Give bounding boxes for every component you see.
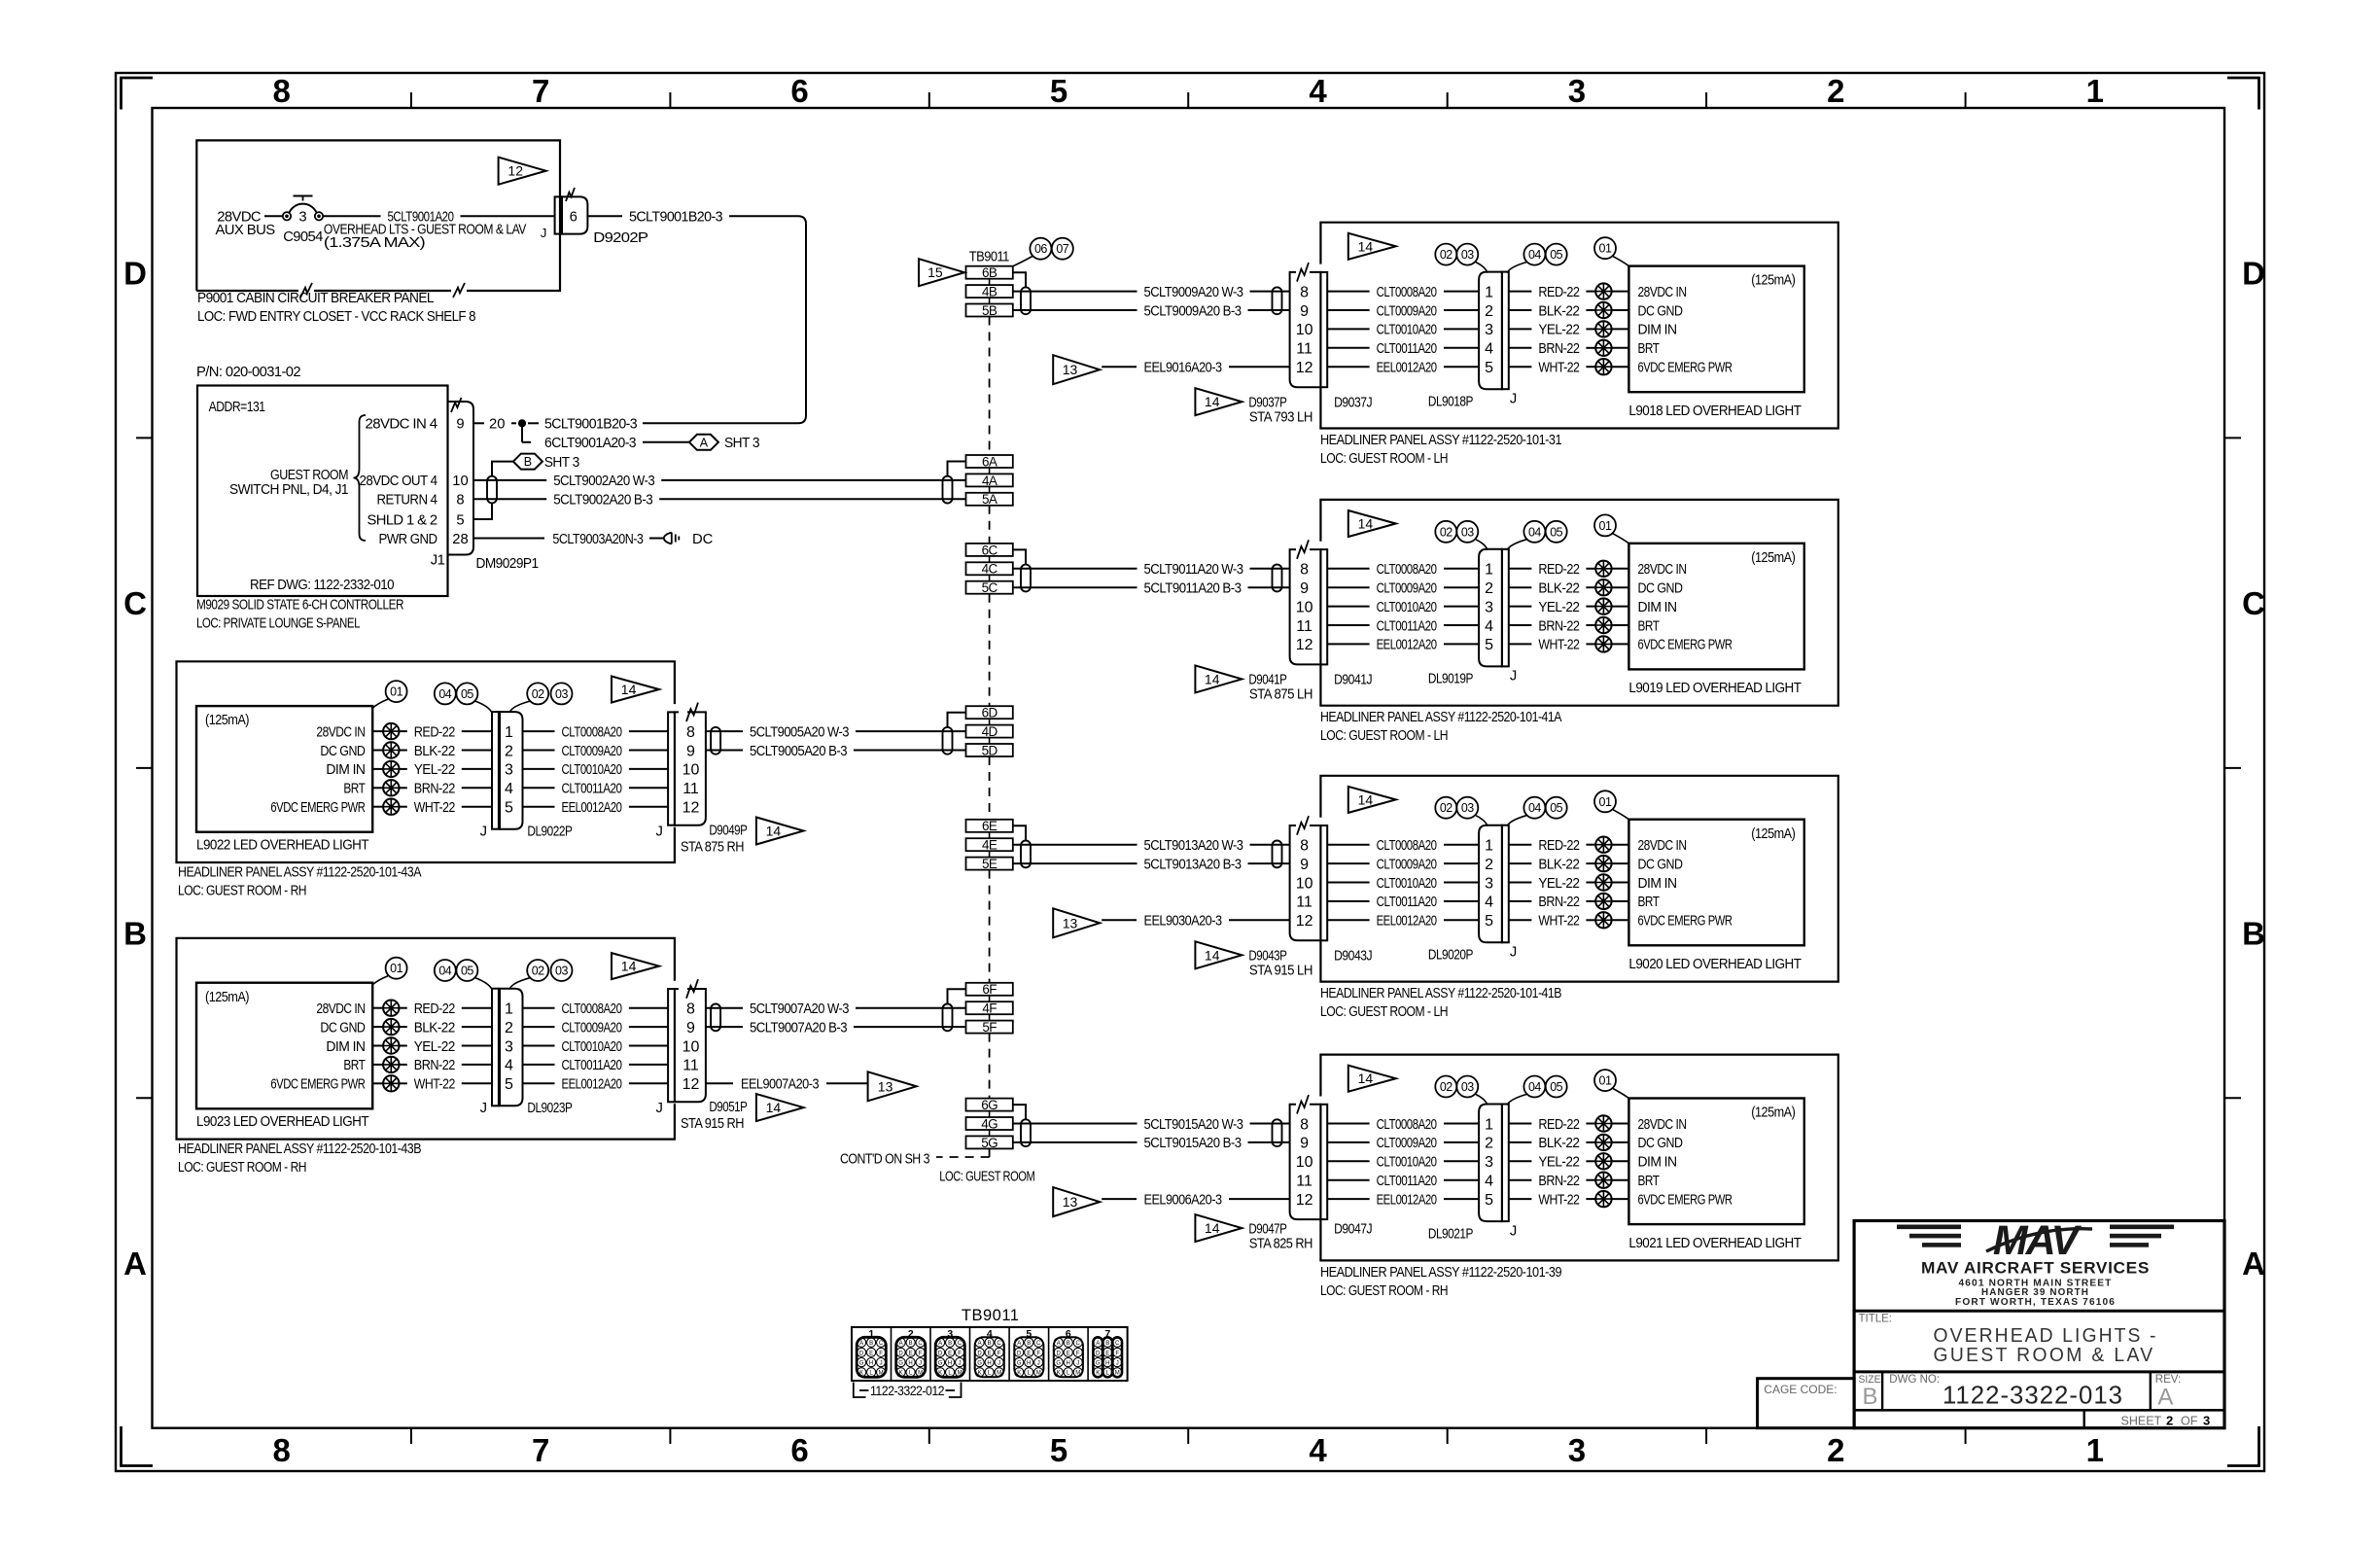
svg-text:K: K [859, 1371, 863, 1377]
svg-text:G: G [1096, 1361, 1101, 1367]
lamp YEL-22 [1595, 598, 1611, 614]
TB9011 ref dwg bracket 1122-3322-012 [854, 1383, 866, 1398]
connector D9047J plate [1320, 1105, 1327, 1219]
svg-text:1122-3322-012: 1122-3322-012 [870, 1384, 944, 1398]
connector DL9018P plate [1502, 272, 1509, 390]
svg-text:7: 7 [532, 73, 549, 109]
headliner panel assembly boundary 1122-2520-101-41A [1320, 500, 1837, 706]
terminal TB9011-5D [966, 744, 1013, 756]
svg-text:HEADLINER PANEL ASSY #1122-252: HEADLINER PANEL ASSY #1122-2520-101-41A [1320, 710, 1562, 725]
svg-text:5CLT9005A20 B-3: 5CLT9005A20 B-3 [750, 744, 847, 759]
svg-text:J: J [480, 824, 487, 839]
svg-text:C: C [997, 1341, 1001, 1347]
svg-text:A: A [1057, 1341, 1061, 1347]
svg-text:6D: 6D [982, 706, 998, 720]
svg-text:05: 05 [1550, 248, 1562, 262]
svg-text:5CLT9001B20-3: 5CLT9001B20-3 [629, 210, 722, 226]
svg-text:11: 11 [1296, 1174, 1312, 1190]
svg-text:A: A [938, 1341, 942, 1347]
svg-text:J: J [655, 1101, 662, 1116]
svg-text:4E: 4E [982, 838, 997, 853]
shield symbol at D9037 [1273, 287, 1282, 314]
svg-text:EEL0012A20: EEL0012A20 [1377, 638, 1437, 653]
svg-text:1: 1 [2086, 1432, 2104, 1468]
connector DL9019P body [1479, 549, 1502, 667]
cell divider [929, 1327, 931, 1381]
svg-text:BLK-22: BLK-22 [414, 744, 455, 759]
connector D9049 plate [668, 712, 675, 825]
svg-text:BRN-22: BRN-22 [414, 782, 455, 797]
svg-text:H: H [948, 1361, 952, 1367]
wire 5CLT9013A20 W-3 [1013, 844, 1137, 846]
svg-text:2: 2 [505, 1020, 513, 1036]
svg-text:FORT WORTH, TEXAS 76106: FORT WORTH, TEXAS 76106 [1955, 1297, 2116, 1308]
svg-text:D: D [1017, 1351, 1022, 1356]
svg-text:CLT0010A20: CLT0010A20 [562, 1039, 622, 1055]
svg-text:GUEST ROOM & LAV: GUEST ROOM & LAV [1934, 1344, 2155, 1366]
svg-text:5G: 5G [981, 1136, 997, 1150]
svg-text:CLT0010A20: CLT0010A20 [1377, 323, 1437, 338]
svg-text:9: 9 [686, 1020, 695, 1036]
flag 14 (inside 9022) [612, 677, 659, 703]
svg-text:BRN-22: BRN-22 [1538, 341, 1579, 357]
svg-text:CLT0009A20: CLT0009A20 [1377, 857, 1437, 872]
svg-text:J: J [1510, 1223, 1517, 1239]
svg-text:P/N: 020-0031-02: P/N: 020-0031-02 [196, 365, 300, 380]
svg-text:12: 12 [682, 800, 700, 817]
svg-text:03: 03 [555, 965, 568, 978]
svg-text:5CLT9009A20 W-3: 5CLT9009A20 W-3 [1144, 285, 1243, 300]
svg-text:D: D [898, 1351, 903, 1356]
svg-text:5: 5 [1485, 1192, 1493, 1209]
svg-text:D: D [977, 1351, 982, 1356]
svg-text:YEL-22: YEL-22 [1538, 323, 1579, 338]
svg-text:28VDC IN: 28VDC IN [316, 1001, 365, 1017]
svg-text:02: 02 [1440, 248, 1452, 262]
wire EEL9007A20-3 to flag 13 [706, 1082, 733, 1084]
break symbol D9047 [1297, 1095, 1309, 1114]
svg-text:3: 3 [505, 762, 513, 779]
svg-text:L9022 LED OVERHEAD LIGHT: L9022 LED OVERHEAD LIGHT [196, 837, 369, 853]
svg-text:8: 8 [686, 724, 695, 741]
headliner panel assembly boundary 1122-2520-101-43B [177, 938, 675, 1140]
P9001 cabin circuit breaker panel box [196, 140, 560, 291]
svg-text:2: 2 [1485, 857, 1493, 873]
svg-text:01: 01 [1599, 1074, 1612, 1088]
svg-text:D: D [2242, 256, 2265, 292]
wire 5CLT9013A20 B-3 [1013, 862, 1137, 864]
svg-text:B: B [909, 1341, 913, 1347]
svg-text:CLT0008A20: CLT0008A20 [1377, 562, 1437, 578]
flag 14 D9049P [756, 818, 804, 845]
svg-text:14: 14 [766, 824, 782, 839]
svg-text:AUX BUS: AUX BUS [216, 223, 276, 238]
svg-text:E: E [1067, 1351, 1070, 1356]
headliner panel assembly boundary 1122-2520-101-39 [1320, 1055, 1837, 1261]
svg-text:(125mA): (125mA) [1751, 1106, 1796, 1121]
lamp RED-22 [1595, 1115, 1611, 1131]
item circles 02 03 leaders [1435, 797, 1456, 819]
svg-text:5C: 5C [982, 580, 998, 595]
headliner panel assembly boundary 1122-2520-101-31 [1320, 223, 1837, 429]
svg-text:LOC: GUEST ROOM - LH: LOC: GUEST ROOM - LH [1320, 1004, 1448, 1020]
flag 14 D9041P [1195, 665, 1242, 692]
svg-text:5: 5 [505, 800, 513, 817]
svg-text:4C: 4C [982, 562, 998, 577]
item circle 01 leader [386, 958, 407, 979]
item circles 02 03 leaders [1435, 244, 1456, 265]
svg-text:L9018 LED OVERHEAD LIGHT: L9018 LED OVERHEAD LIGHT [1628, 404, 1802, 419]
svg-text:4: 4 [1485, 1174, 1493, 1190]
connector DL9020P plate [1502, 825, 1509, 943]
controller connector J1 [448, 402, 474, 555]
terminal TB9011-4A [966, 474, 1013, 486]
svg-text:K: K [1017, 1371, 1021, 1377]
svg-text:01: 01 [390, 962, 402, 975]
svg-text:SWITCH PNL, D4, J1: SWITCH PNL, D4, J1 [229, 482, 348, 498]
svg-text:H: H [908, 1361, 912, 1367]
svg-text:BRN-22: BRN-22 [414, 1058, 455, 1073]
DC ground symbol [664, 533, 672, 544]
svg-text:5: 5 [1485, 360, 1493, 376]
svg-text:4: 4 [1485, 895, 1493, 911]
svg-text:4D: 4D [982, 724, 998, 739]
svg-text:11: 11 [1296, 618, 1312, 635]
svg-text:14: 14 [1205, 671, 1220, 686]
svg-text:(125mA): (125mA) [1751, 550, 1796, 566]
svg-text:A: A [123, 1246, 147, 1282]
svg-text:3: 3 [1485, 875, 1493, 892]
svg-text:DC GND: DC GND [1638, 1136, 1683, 1151]
wires colored to lamps [1509, 844, 1532, 846]
svg-text:D: D [1096, 1351, 1101, 1356]
corner trim marks [122, 78, 154, 110]
svg-text:12: 12 [682, 1076, 700, 1093]
svg-text:01: 01 [1599, 242, 1612, 256]
svg-text:10: 10 [1296, 322, 1313, 338]
wire 5CLT9007A20 B-3 [706, 1026, 743, 1028]
svg-text:3: 3 [1568, 1432, 1586, 1468]
svg-text:28: 28 [452, 532, 468, 547]
svg-text:C: C [879, 1341, 884, 1347]
solid link segments group E [989, 832, 991, 838]
svg-text:BRT: BRT [1638, 895, 1660, 910]
svg-text:06: 06 [1034, 242, 1047, 256]
connector D9051P body [675, 989, 706, 1102]
svg-text:C: C [1076, 1341, 1081, 1347]
svg-text:5: 5 [1485, 637, 1493, 653]
lamp WHT-22 [1595, 359, 1611, 374]
svg-text:02: 02 [1440, 525, 1452, 539]
flag 14 (inside 9020) [1348, 787, 1396, 813]
svg-text:DIM IN: DIM IN [326, 1039, 365, 1055]
svg-text:D: D [938, 1351, 943, 1356]
svg-text:CLT0011A20: CLT0011A20 [562, 1058, 622, 1073]
svg-text:DC GND: DC GND [320, 744, 365, 759]
svg-text:C: C [918, 1341, 923, 1347]
svg-text:13: 13 [878, 1078, 893, 1094]
svg-text:D9037J: D9037J [1334, 396, 1372, 411]
svg-text:J1: J1 [431, 552, 445, 568]
svg-text:C: C [1036, 1341, 1041, 1347]
svg-text:6F: 6F [982, 982, 997, 997]
svg-text:5CLT9009A20 B-3: 5CLT9009A20 B-3 [1144, 303, 1242, 319]
svg-text:9: 9 [1300, 857, 1309, 873]
svg-text:28VDC IN: 28VDC IN [1638, 838, 1687, 854]
connector D9049P body [675, 712, 706, 825]
svg-text:9: 9 [456, 417, 464, 433]
wires colored to lamps [1509, 291, 1532, 293]
lamp BRN-22 [1595, 340, 1611, 356]
svg-text:7: 7 [532, 1432, 549, 1468]
connector DL9021P plate [1502, 1105, 1509, 1222]
svg-text:CLT0009A20: CLT0009A20 [562, 744, 622, 759]
LED light unit L9018 [1628, 266, 1803, 393]
svg-text:YEL-22: YEL-22 [414, 1039, 455, 1055]
shield symbol C pair [1021, 565, 1031, 592]
svg-text:2: 2 [505, 743, 513, 759]
svg-text:RED-22: RED-22 [1538, 285, 1579, 300]
connector D9202P [555, 196, 562, 233]
svg-text:P9001 CABIN CIRCUIT BREAKER PA: P9001 CABIN CIRCUIT BREAKER PANEL [197, 291, 434, 306]
svg-text:G: G [1017, 1361, 1022, 1367]
headliner panel assembly boundary 1122-2520-101-41B [1320, 776, 1837, 982]
svg-text:5CLT9001B20-3: 5CLT9001B20-3 [544, 417, 637, 433]
svg-text:DIM IN: DIM IN [1638, 876, 1677, 892]
terminal TB9011-5A [966, 493, 1013, 506]
svg-text:04: 04 [1528, 801, 1541, 815]
svg-text:CLT0010A20: CLT0010A20 [562, 762, 622, 778]
svg-text:DC GND: DC GND [320, 1020, 365, 1036]
svg-text:C: C [958, 1341, 962, 1347]
svg-text:YEL-22: YEL-22 [1538, 600, 1579, 615]
svg-text:4B: 4B [982, 285, 997, 299]
svg-text:BLK-22: BLK-22 [1538, 303, 1579, 319]
svg-text:DM9029P1: DM9029P1 [476, 556, 539, 572]
svg-text:A: A [2242, 1246, 2265, 1282]
svg-text:STA 915 LH: STA 915 LH [1249, 964, 1312, 979]
svg-text:K: K [938, 1371, 942, 1377]
wire 5CLT9009A20 W-3 [1013, 291, 1137, 293]
svg-text:6B: 6B [982, 265, 997, 280]
connector D9041P body [1290, 549, 1321, 664]
dashed trunk line TB9011 [989, 317, 991, 456]
svg-text:4: 4 [1485, 341, 1493, 358]
svg-text:03: 03 [1461, 1080, 1474, 1094]
svg-text:6VDC EMERG PWR: 6VDC EMERG PWR [1638, 914, 1732, 930]
svg-text:01: 01 [1599, 795, 1612, 809]
svg-text:04: 04 [438, 965, 451, 978]
wire 5CLT9011A20 W-3 [1013, 568, 1137, 570]
svg-text:H: H [869, 1361, 873, 1367]
connector D9043J plate [1320, 825, 1327, 940]
svg-text:D: D [123, 256, 147, 292]
svg-text:SHT 3: SHT 3 [544, 455, 579, 471]
wires colored to lamps [400, 1007, 407, 1009]
wires CLT/EEL between connectors [1327, 568, 1369, 570]
break symbol D9049 [686, 703, 698, 722]
svg-text:6E: 6E [982, 819, 997, 833]
controller shield pin 5 wire [473, 503, 492, 519]
item circle 01 leader [1594, 514, 1616, 536]
terminal TB9011-4C [966, 562, 1013, 575]
svg-text:5CLT9013A20 B-3: 5CLT9013A20 B-3 [1144, 857, 1242, 872]
hex flag A SHT 3 [689, 435, 718, 450]
cell divider [891, 1327, 892, 1381]
svg-text:8: 8 [273, 73, 291, 109]
svg-text:EEL0012A20: EEL0012A20 [562, 1077, 622, 1093]
svg-text:HEADLINER PANEL ASSY #1122-252: HEADLINER PANEL ASSY #1122-2520-101-41B [1320, 986, 1562, 1001]
svg-text:G: G [977, 1361, 982, 1367]
svg-text:GUEST ROOM: GUEST ROOM [270, 468, 348, 483]
svg-text:E: E [1105, 1351, 1109, 1356]
svg-text:8: 8 [686, 1001, 695, 1018]
svg-text:HEADLINER PANEL ASSY #1122-252: HEADLINER PANEL ASSY #1122-2520-101-39 [1320, 1265, 1561, 1281]
svg-text:10: 10 [1296, 1154, 1313, 1171]
svg-text:DL9021P: DL9021P [1428, 1226, 1474, 1242]
lamp BRN-22 [383, 780, 399, 795]
connector D9051 plate [668, 989, 675, 1102]
svg-text:D9043J: D9043J [1334, 949, 1372, 965]
lamp BLK-22 [1595, 1135, 1611, 1150]
svg-text:20: 20 [489, 417, 505, 433]
svg-text:9: 9 [1300, 303, 1309, 320]
svg-text:B: B [869, 1341, 873, 1347]
svg-text:5CLT9011A20 B-3: 5CLT9011A20 B-3 [1144, 581, 1242, 597]
connector DL9018P body [1479, 272, 1502, 390]
svg-text:07: 07 [1056, 242, 1068, 256]
svg-text:6VDC EMERG PWR: 6VDC EMERG PWR [270, 1077, 365, 1093]
svg-text:OF: OF [2181, 1415, 2198, 1428]
svg-text:G: G [938, 1361, 943, 1367]
svg-text:BLK-22: BLK-22 [1538, 1136, 1579, 1151]
LED light unit L9019 [1628, 544, 1803, 670]
svg-text:A: A [1017, 1341, 1021, 1347]
svg-text:CLT0009A20: CLT0009A20 [1377, 303, 1437, 319]
svg-text:A: A [1096, 1341, 1100, 1347]
svg-text:5D: 5D [982, 743, 998, 757]
svg-text:J: J [1510, 392, 1517, 407]
svg-text:F: F [958, 1351, 962, 1356]
svg-text:3: 3 [1485, 1154, 1493, 1171]
svg-text:K: K [1057, 1371, 1061, 1377]
svg-text:D9047J: D9047J [1334, 1221, 1372, 1237]
svg-text:2: 2 [1485, 303, 1493, 320]
terminal TB9011-4D [966, 725, 1013, 738]
zone ticks bottom [410, 1428, 412, 1444]
junction node [518, 420, 525, 427]
svg-text:A: A [978, 1341, 982, 1347]
svg-text:L9019 LED OVERHEAD LIGHT: L9019 LED OVERHEAD LIGHT [1628, 681, 1802, 696]
svg-text:CLT0008A20: CLT0008A20 [1377, 838, 1437, 854]
svg-text:LOC: GUEST ROOM - RH: LOC: GUEST ROOM - RH [178, 1160, 306, 1176]
svg-text:WHT-22: WHT-22 [1538, 361, 1579, 376]
svg-text:28VDC IN: 28VDC IN [316, 724, 365, 740]
lamp BLK-22 [1595, 579, 1611, 595]
svg-text:12: 12 [1296, 1192, 1313, 1209]
svg-text:EEL9006A20-3: EEL9006A20-3 [1144, 1192, 1222, 1208]
solid link segments group G [989, 1111, 991, 1117]
lamp RED-22 [383, 723, 399, 739]
svg-text:WHT-22: WHT-22 [414, 1077, 455, 1093]
svg-text:H: H [1067, 1361, 1070, 1367]
svg-text:EEL9007A20-3: EEL9007A20-3 [741, 1077, 819, 1093]
svg-text:DL9023P: DL9023P [527, 1101, 573, 1116]
svg-text:14: 14 [1358, 1071, 1374, 1086]
shield drain wire 6G [1013, 1105, 1026, 1119]
svg-text:J: J [655, 824, 662, 839]
headliner panel assembly boundary 1122-2520-101-43A [177, 661, 675, 862]
lamp BRN-22 [383, 1057, 399, 1072]
wires CLT/EEL between connectors [1327, 1123, 1369, 1125]
svg-text:J: J [1076, 1361, 1079, 1367]
wires CLT/EEL between connectors [1327, 844, 1369, 846]
svg-text:A: A [700, 436, 709, 449]
svg-text:CLT0008A20: CLT0008A20 [1377, 1117, 1437, 1133]
svg-text:RED-22: RED-22 [1538, 838, 1579, 854]
svg-text:5CLT9007A20 B-3: 5CLT9007A20 B-3 [750, 1020, 847, 1036]
svg-text:YEL-22: YEL-22 [414, 762, 455, 778]
connector DL9023P body [500, 989, 523, 1106]
svg-text:05: 05 [461, 687, 473, 701]
lamp RED-22 [1595, 561, 1611, 577]
svg-text:5CLT9003A20N-3: 5CLT9003A20N-3 [552, 532, 643, 547]
shield symbol at D9051 [711, 1004, 720, 1032]
connector DL9022P body [500, 712, 523, 829]
svg-text:CLT0011A20: CLT0011A20 [1377, 341, 1437, 357]
svg-text:LOC: GUEST ROOM - LH: LOC: GUEST ROOM - LH [1320, 728, 1448, 744]
svg-text:D9043P: D9043P [1248, 949, 1287, 965]
cell divider [1048, 1327, 1050, 1381]
svg-text:J: J [480, 1101, 487, 1116]
svg-text:6: 6 [790, 73, 808, 109]
svg-text:M: M [918, 1371, 923, 1377]
svg-text:C9054: C9054 [283, 229, 323, 245]
item circles 02 03 leaders [1435, 521, 1456, 543]
svg-text:F: F [879, 1351, 883, 1356]
LED light unit L9020 [1628, 820, 1803, 946]
svg-text:B: B [1027, 1341, 1031, 1347]
svg-text:K: K [978, 1371, 982, 1377]
svg-text:D: D [1057, 1351, 1062, 1356]
MAV logo [1897, 1225, 2174, 1247]
svg-text:BRT: BRT [343, 1058, 365, 1073]
item circles 04 05 leaders [1523, 521, 1545, 543]
cell divider [1087, 1327, 1089, 1381]
svg-text:F: F [997, 1351, 1001, 1356]
svg-text:H: H [987, 1361, 991, 1367]
connector DL9022P plate [492, 712, 499, 829]
svg-text:6: 6 [790, 1432, 808, 1468]
svg-text:CLT0009A20: CLT0009A20 [1377, 1136, 1437, 1151]
svg-text:9: 9 [1300, 1136, 1309, 1152]
svg-text:4F: 4F [982, 1001, 997, 1016]
svg-text:CLT0010A20: CLT0010A20 [1377, 600, 1437, 615]
svg-text:15: 15 [927, 264, 943, 280]
svg-text:M: M [958, 1371, 962, 1377]
connector D9037P body [1290, 272, 1321, 387]
svg-text:2: 2 [1827, 1432, 1844, 1468]
lamp YEL-22 [1595, 874, 1611, 890]
svg-text:EEL0012A20: EEL0012A20 [1377, 361, 1437, 376]
terminal TB9011-6C [966, 544, 1013, 556]
svg-text:6C: 6C [982, 543, 998, 557]
svg-text:14: 14 [621, 959, 637, 974]
wire 5CLT9015A20 W-3 [1013, 1123, 1137, 1125]
svg-text:EEL0012A20: EEL0012A20 [1377, 914, 1437, 930]
svg-text:DC GND: DC GND [1638, 857, 1683, 872]
lamp WHT-22 [1595, 636, 1611, 651]
